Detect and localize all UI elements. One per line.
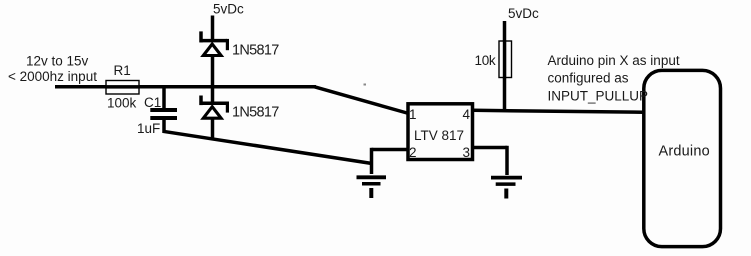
svg-text:10k: 10k	[475, 53, 496, 68]
svg-text:1N5817: 1N5817	[232, 104, 279, 120]
svg-text:Arduino: Arduino	[659, 144, 710, 160]
svg-text:100k: 100k	[107, 96, 137, 111]
svg-text:5vDc: 5vDc	[508, 6, 539, 21]
svg-text:1N5817: 1N5817	[232, 42, 279, 58]
svg-text:LTV 817: LTV 817	[414, 128, 464, 143]
svg-text:C1: C1	[144, 95, 161, 110]
svg-text:3: 3	[463, 145, 471, 160]
svg-text:INPUT_PULLUP: INPUT_PULLUP	[548, 89, 649, 104]
svg-text:R1: R1	[114, 63, 131, 78]
svg-text:< 2000hz input: < 2000hz input	[8, 69, 97, 84]
svg-text:12v to 15v: 12v to 15v	[26, 54, 89, 69]
svg-text:1uF: 1uF	[137, 121, 160, 136]
svg-text:1: 1	[409, 107, 417, 122]
svg-text:configured as: configured as	[548, 70, 629, 85]
svg-text:4: 4	[463, 107, 471, 122]
svg-text:2: 2	[409, 145, 417, 160]
svg-text:Arduino pin X as input: Arduino pin X as input	[548, 53, 680, 68]
svg-text:5vDc: 5vDc	[213, 2, 244, 17]
